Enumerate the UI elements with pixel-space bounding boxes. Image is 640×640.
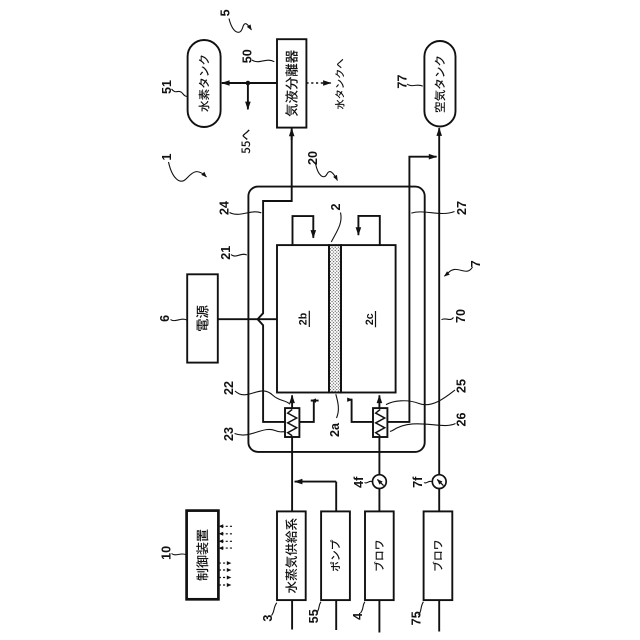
svg-text:77: 77 [395,75,409,89]
svg-text:50: 50 [241,49,255,63]
svg-text:20: 20 [306,151,320,165]
svg-text:2c: 2c [364,313,376,325]
svg-text:2: 2 [329,203,343,210]
svg-text:55: 55 [307,609,321,623]
svg-text:4: 4 [351,613,365,620]
svg-text:10: 10 [160,546,174,560]
svg-text:5: 5 [219,9,233,16]
svg-text:70: 70 [454,309,468,323]
svg-text:22: 22 [222,381,236,395]
svg-text:51: 51 [160,80,174,94]
svg-text:2b: 2b [298,312,310,325]
svg-text:7f: 7f [411,476,425,488]
svg-text:26: 26 [455,412,469,426]
svg-text:21: 21 [219,246,233,260]
svg-text:23: 23 [222,427,236,441]
svg-text:2a: 2a [328,422,342,437]
svg-text:25: 25 [455,379,469,393]
svg-text:27: 27 [455,201,469,215]
svg-text:6: 6 [158,315,172,322]
svg-text:1: 1 [160,153,174,160]
svg-text:3: 3 [261,615,275,622]
svg-text:7: 7 [469,260,483,267]
svg-text:75: 75 [409,611,423,625]
svg-text:24: 24 [217,201,231,215]
svg-text:4f: 4f [352,476,366,488]
